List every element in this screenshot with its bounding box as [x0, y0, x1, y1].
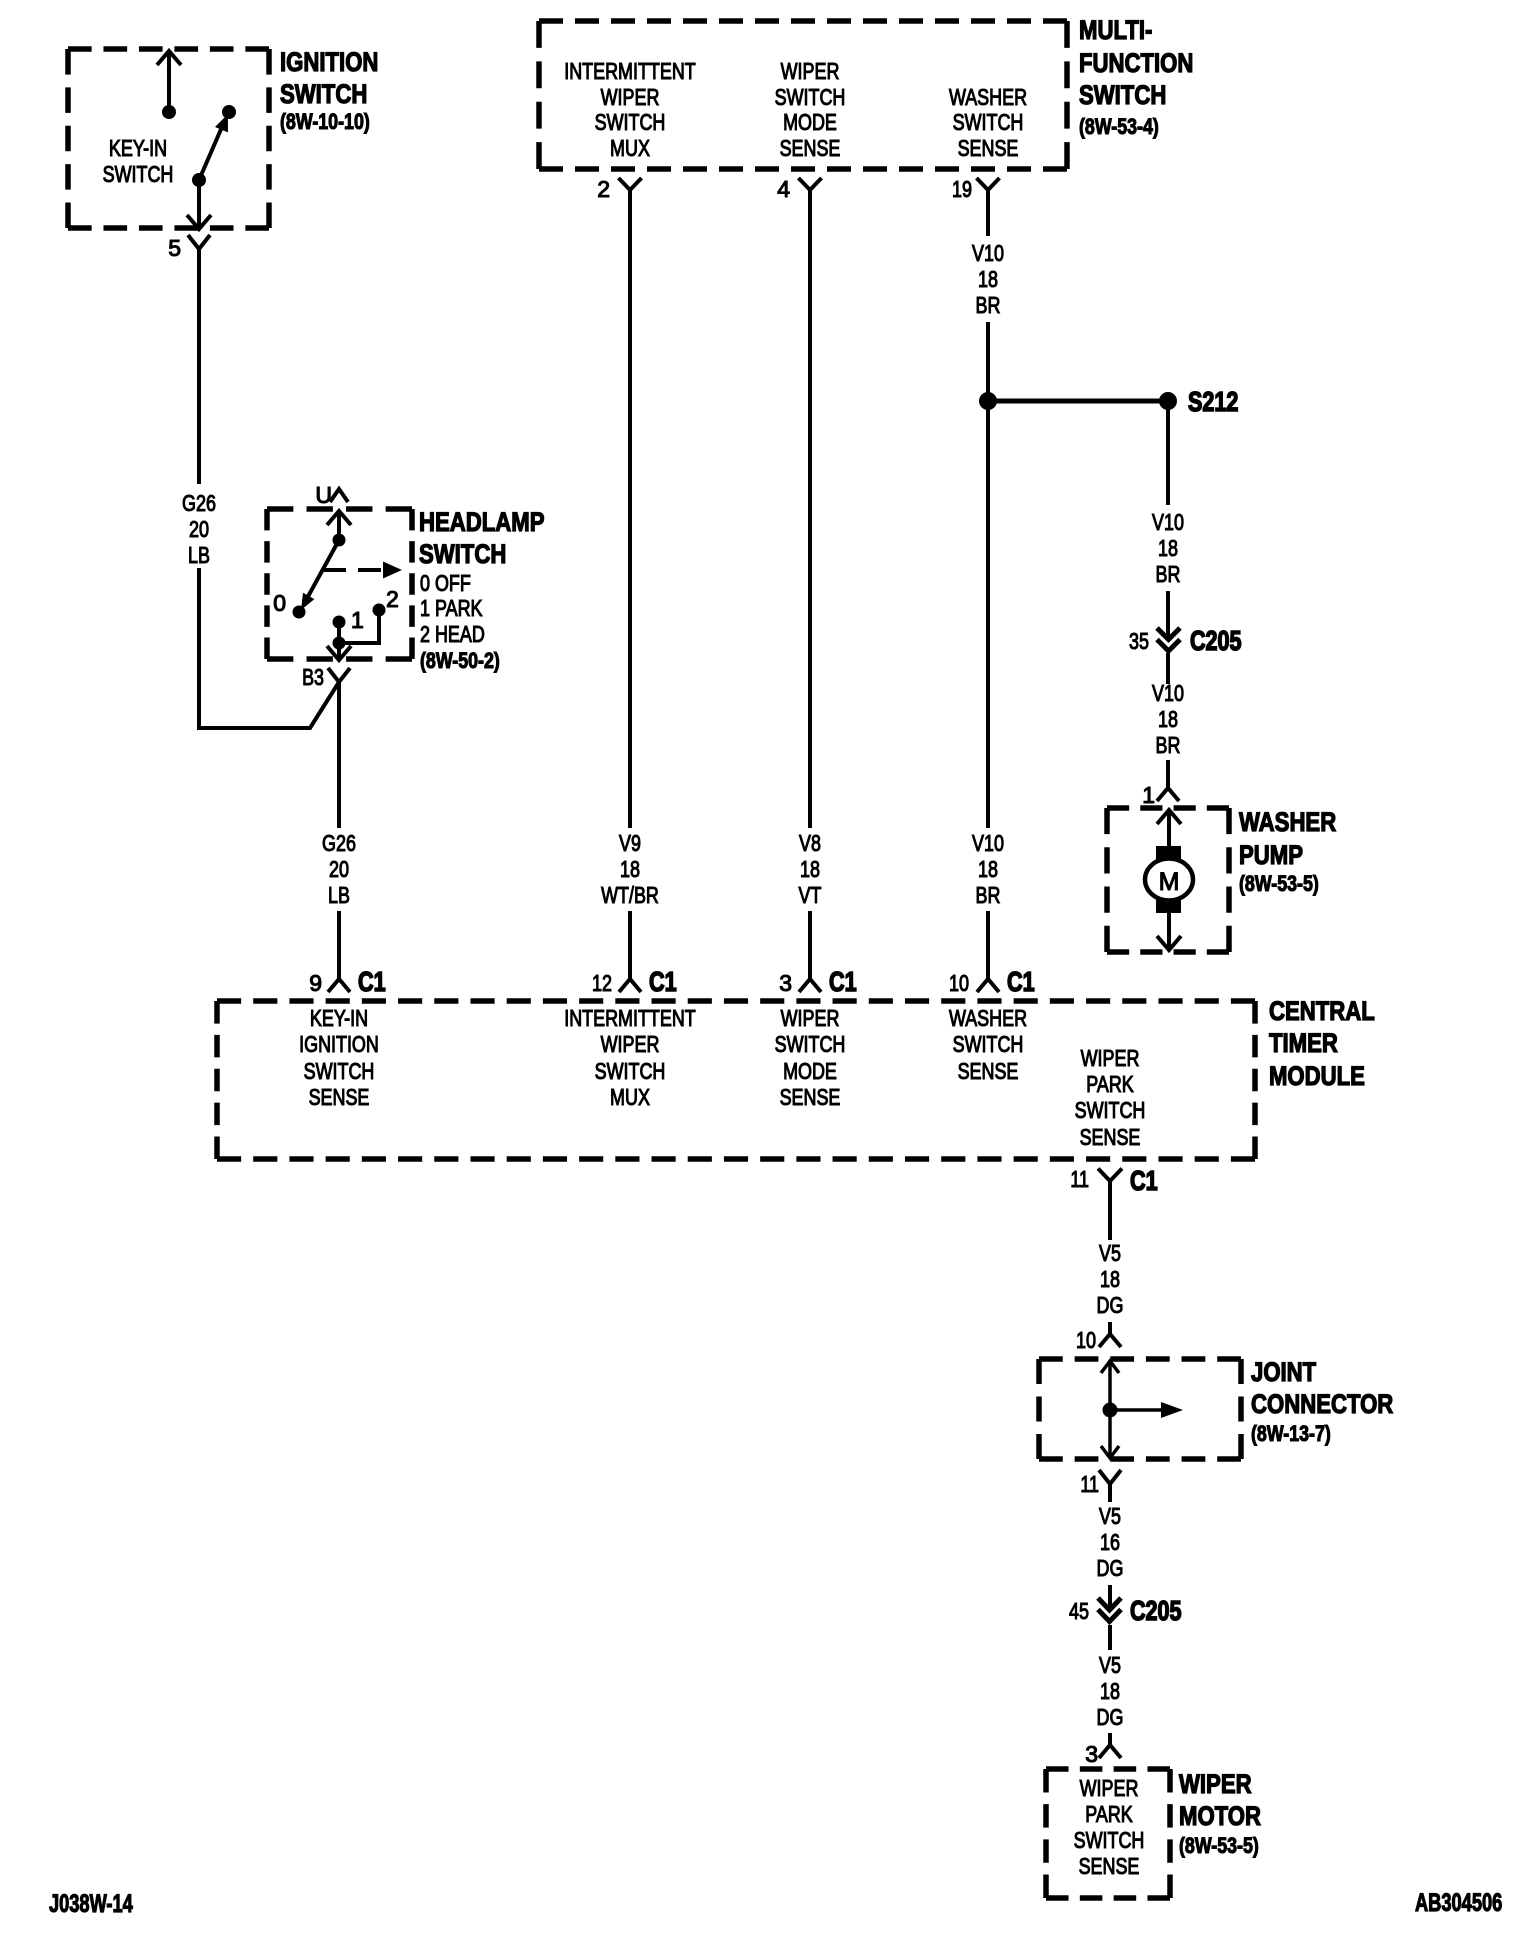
svg-text:V10: V10 — [972, 240, 1004, 266]
svg-text:B3: B3 — [302, 664, 324, 690]
svg-text:SWITCH: SWITCH — [1074, 1827, 1145, 1853]
svg-text:BR: BR — [976, 292, 1001, 318]
svg-text:WT/BR: WT/BR — [601, 882, 659, 908]
svg-text:10: 10 — [949, 970, 969, 996]
svg-text:45: 45 — [1069, 1598, 1089, 1624]
svg-text:C1: C1 — [649, 966, 677, 997]
svg-text:2 HEAD: 2 HEAD — [420, 621, 485, 647]
svg-text:MODULE: MODULE — [1269, 1061, 1365, 1091]
svg-text:WIPER: WIPER — [1080, 1775, 1139, 1801]
svg-text:SENSE: SENSE — [1079, 1853, 1140, 1879]
svg-text:11: 11 — [1070, 1166, 1089, 1192]
svg-text:V10: V10 — [1152, 509, 1184, 535]
svg-text:SENSE: SENSE — [958, 135, 1019, 161]
svg-text:2: 2 — [597, 176, 610, 202]
svg-text:SWITCH: SWITCH — [595, 109, 666, 135]
svg-text:HEADLAMP: HEADLAMP — [419, 507, 545, 537]
svg-text:U: U — [315, 482, 332, 508]
svg-text:TIMER: TIMER — [1269, 1028, 1338, 1058]
svg-text:PARK: PARK — [1085, 1801, 1133, 1827]
svg-text:SWITCH: SWITCH — [1075, 1097, 1146, 1123]
svg-text:MULTI-: MULTI- — [1079, 15, 1152, 45]
svg-text:CONNECTOR: CONNECTOR — [1251, 1389, 1393, 1419]
svg-text:SWITCH: SWITCH — [775, 1031, 846, 1057]
svg-text:20: 20 — [189, 516, 209, 542]
svg-text:18: 18 — [1100, 1266, 1120, 1292]
svg-text:J038W-14: J038W-14 — [49, 1890, 133, 1918]
svg-text:0: 0 — [273, 590, 286, 616]
svg-text:KEY-IN: KEY-IN — [109, 135, 167, 161]
svg-text:SWITCH: SWITCH — [595, 1058, 666, 1084]
svg-text:V5: V5 — [1099, 1503, 1121, 1529]
svg-text:11: 11 — [1080, 1471, 1099, 1497]
svg-text:WIPER: WIPER — [1179, 1769, 1252, 1799]
svg-text:FUNCTION: FUNCTION — [1079, 48, 1193, 78]
svg-text:SWITCH: SWITCH — [1079, 80, 1166, 110]
svg-text:PARK: PARK — [1086, 1071, 1134, 1097]
svg-text:WASHER: WASHER — [1239, 807, 1336, 837]
svg-text:SWITCH: SWITCH — [953, 1031, 1024, 1057]
svg-text:AB304506: AB304506 — [1415, 1889, 1502, 1917]
svg-text:SWITCH: SWITCH — [304, 1058, 375, 1084]
svg-text:WASHER: WASHER — [949, 1005, 1027, 1031]
svg-text:V10: V10 — [1152, 680, 1184, 706]
svg-text:WIPER: WIPER — [781, 1005, 840, 1031]
svg-text:(8W-13-7): (8W-13-7) — [1251, 1421, 1331, 1446]
svg-text:(8W-53-5): (8W-53-5) — [1179, 1833, 1259, 1858]
svg-text:WIPER: WIPER — [1081, 1045, 1140, 1071]
svg-text:18: 18 — [1100, 1678, 1120, 1704]
svg-text:18: 18 — [1158, 706, 1178, 732]
svg-text:DG: DG — [1097, 1555, 1124, 1581]
svg-text:LB: LB — [188, 542, 210, 568]
svg-text:CENTRAL: CENTRAL — [1269, 996, 1375, 1026]
svg-text:WIPER: WIPER — [601, 1031, 660, 1057]
svg-text:SWITCH: SWITCH — [419, 539, 506, 569]
svg-text:V8: V8 — [799, 830, 821, 856]
svg-text:KEY-IN: KEY-IN — [310, 1005, 368, 1031]
svg-text:3: 3 — [1085, 1741, 1098, 1767]
svg-text:C205: C205 — [1130, 1595, 1182, 1626]
svg-text:18: 18 — [978, 856, 998, 882]
svg-text:5: 5 — [168, 235, 181, 261]
svg-text:10: 10 — [1076, 1327, 1096, 1353]
svg-text:9: 9 — [309, 970, 322, 996]
svg-text:SWITCH: SWITCH — [280, 79, 367, 109]
svg-text:SENSE: SENSE — [780, 1084, 841, 1110]
svg-text:WIPER: WIPER — [601, 84, 660, 110]
svg-text:V10: V10 — [972, 830, 1004, 856]
svg-text:G26: G26 — [182, 490, 216, 516]
svg-text:LB: LB — [328, 882, 350, 908]
svg-text:1 PARK: 1 PARK — [420, 595, 483, 621]
svg-text:S212: S212 — [1188, 386, 1238, 417]
svg-text:18: 18 — [978, 266, 998, 292]
svg-text:SWITCH: SWITCH — [953, 109, 1024, 135]
svg-text:SENSE: SENSE — [309, 1084, 370, 1110]
svg-text:BR: BR — [976, 882, 1001, 908]
svg-text:4: 4 — [777, 176, 790, 202]
svg-text:M: M — [1159, 868, 1180, 896]
svg-text:19: 19 — [952, 176, 972, 202]
svg-text:20: 20 — [329, 856, 349, 882]
svg-text:1: 1 — [1142, 782, 1155, 808]
svg-text:BR: BR — [1156, 561, 1181, 587]
svg-text:(8W-53-4): (8W-53-4) — [1079, 114, 1159, 139]
svg-text:(8W-10-10): (8W-10-10) — [280, 109, 370, 134]
svg-text:DG: DG — [1097, 1704, 1124, 1730]
svg-text:VT: VT — [799, 882, 822, 908]
svg-text:SENSE: SENSE — [780, 135, 841, 161]
svg-text:PUMP: PUMP — [1239, 840, 1303, 870]
svg-text:C1: C1 — [1130, 1165, 1158, 1196]
svg-text:(8W-53-5): (8W-53-5) — [1239, 871, 1319, 896]
svg-text:MODE: MODE — [783, 1058, 837, 1084]
svg-text:V5: V5 — [1099, 1240, 1121, 1266]
svg-text:MUX: MUX — [610, 135, 650, 161]
svg-text:DG: DG — [1097, 1292, 1124, 1318]
svg-text:16: 16 — [1100, 1529, 1120, 1555]
svg-text:V5: V5 — [1099, 1652, 1121, 1678]
svg-text:IGNITION: IGNITION — [280, 47, 378, 77]
svg-text:SENSE: SENSE — [1080, 1124, 1141, 1150]
svg-text:WASHER: WASHER — [949, 84, 1027, 110]
svg-text:2: 2 — [386, 586, 399, 612]
svg-text:IGNITION: IGNITION — [299, 1031, 379, 1057]
svg-text:C1: C1 — [1007, 966, 1035, 997]
svg-text:18: 18 — [1158, 535, 1178, 561]
svg-text:1: 1 — [351, 607, 364, 633]
svg-text:SWITCH: SWITCH — [775, 84, 846, 110]
svg-text:MODE: MODE — [783, 109, 837, 135]
svg-text:MOTOR: MOTOR — [1179, 1801, 1261, 1831]
svg-text:C205: C205 — [1190, 625, 1242, 656]
svg-text:C1: C1 — [829, 966, 857, 997]
svg-text:G26: G26 — [322, 830, 356, 856]
svg-text:18: 18 — [620, 856, 640, 882]
svg-text:35: 35 — [1129, 628, 1149, 654]
svg-text:WIPER: WIPER — [781, 58, 840, 84]
svg-text:INTERMITTENT: INTERMITTENT — [564, 58, 696, 84]
svg-text:0 OFF: 0 OFF — [420, 570, 471, 596]
svg-text:V9: V9 — [619, 830, 641, 856]
svg-text:MUX: MUX — [610, 1084, 650, 1110]
svg-text:(8W-50-2): (8W-50-2) — [420, 648, 500, 673]
svg-text:BR: BR — [1156, 732, 1181, 758]
svg-text:JOINT: JOINT — [1251, 1357, 1317, 1387]
svg-text:C1: C1 — [358, 966, 386, 997]
svg-text:INTERMITTENT: INTERMITTENT — [564, 1005, 696, 1031]
svg-text:3: 3 — [779, 970, 792, 996]
svg-text:18: 18 — [800, 856, 820, 882]
svg-text:SENSE: SENSE — [958, 1058, 1019, 1084]
svg-text:SWITCH: SWITCH — [103, 161, 174, 187]
svg-text:12: 12 — [592, 970, 612, 996]
